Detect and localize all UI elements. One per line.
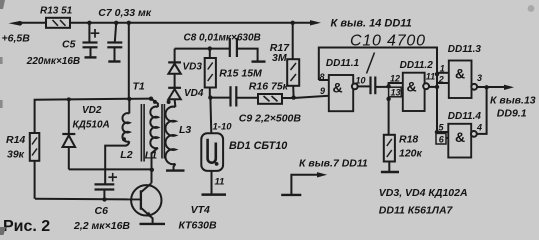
svg-text:13: 13 [391, 88, 401, 98]
svg-text:ВD1 СБТ10: ВD1 СБТ10 [229, 140, 287, 152]
transistor VT4 [131, 183, 161, 223]
svg-text:R18: R18 [399, 134, 418, 146]
wire tube anode [209, 98, 212, 134]
svg-text:DD11.1: DD11.1 [326, 58, 360, 69]
transformer T1 core [140, 104, 142, 162]
wire VD2 anode to collector node [69, 168, 152, 170]
capacitor C10 [369, 77, 371, 95]
ground under BD1 [202, 193, 227, 196]
ground under VT4 emitter [140, 223, 166, 225]
node arrow left +6,5В [9, 21, 21, 26]
svg-text:+6,5В: +6,5В [2, 33, 31, 45]
node junction L1 bottom / collector [150, 168, 154, 172]
svg-text:К выв.13: К выв.13 [490, 95, 536, 107]
node junction R17 bottom [291, 95, 295, 99]
svg-text:39к: 39к [7, 149, 25, 161]
ground under C8 [252, 60, 266, 62]
ground under L3 [166, 169, 185, 171]
svg-text:8: 8 [320, 72, 325, 82]
svg-text:R14: R14 [6, 134, 25, 146]
svg-text:10: 10 [356, 76, 366, 86]
svg-text:2,2 мк×16В: 2,2 мк×16В [73, 220, 130, 232]
node junction C10 / pin12 [386, 84, 390, 88]
wire +6.5V branch left [35, 99, 151, 134]
svg-text:С7 0,33 мк: С7 0,33 мк [98, 7, 151, 19]
svg-text:2: 2 [438, 75, 444, 85]
diode VD4 [168, 74, 181, 99]
svg-text:VТ4: VТ4 [191, 204, 210, 216]
svg-text:DD11.4: DD11.4 [448, 111, 482, 122]
wire +6.5V top rail [17, 22, 311, 24]
resistor R15 [205, 49, 216, 98]
node arrow to DD9.1 [504, 85, 514, 90]
svg-text:DD11.3: DD11.3 [448, 44, 482, 55]
svg-text:L1: L1 [145, 150, 157, 162]
svg-text:1-10: 1-10 [213, 122, 233, 133]
wire ground arrow pin7 [281, 194, 301, 196]
svg-text:&: & [455, 129, 465, 145]
gate DD11.2 [403, 73, 437, 111]
svg-text:VD2: VD2 [82, 105, 102, 116]
svg-text:R15 15М: R15 15М [219, 68, 262, 80]
svg-text:КТ630В: КТ630В [179, 220, 218, 232]
svg-text:С10 4700: С10 4700 [350, 33, 426, 50]
node C10 to gate inputs [376, 86, 389, 88]
node junction VD2 cathode [67, 97, 71, 101]
node junction L2 top / +6.5V [127, 97, 131, 101]
ground under R18 [381, 171, 399, 173]
node arrow right to pin 14 [310, 20, 321, 25]
svg-text:3М: 3М [272, 52, 287, 64]
gate DD11.3 [437, 61, 504, 99]
wire HV node [175, 48, 230, 50]
wire drop from rail to transformer [128, 23, 130, 99]
svg-text:220мк×16В: 220мк×16В [26, 56, 80, 67]
gate DD11.4 [435, 87, 487, 157]
capacitor C6 [95, 173, 118, 200]
svg-text:С8 0,01мк×630В: С8 0,01мк×630В [184, 33, 261, 44]
svg-text:&: & [407, 79, 417, 95]
svg-text:К выв.7 DD11: К выв.7 DD11 [299, 158, 368, 170]
svg-text:VD3: VD3 [183, 62, 203, 73]
inductor L2 [105, 99, 129, 184]
svg-text:4: 4 [476, 123, 482, 133]
node junction C6 / base [102, 197, 106, 201]
svg-text:Т1: Т1 [133, 81, 145, 93]
svg-text:VD4: VD4 [184, 88, 204, 99]
inductor L3 [165, 99, 175, 170]
node junction outputs 3,4 [484, 85, 488, 89]
wire leader line C10 label [367, 53, 375, 74]
wire base [35, 198, 141, 201]
svg-text:12: 12 [390, 74, 400, 84]
node junction DD11.2 output [435, 85, 439, 89]
wire feedback loop [319, 48, 437, 133]
svg-text:С5: С5 [62, 39, 76, 51]
svg-text:9: 9 [320, 86, 325, 96]
node junction R15 / BD1 / C9 [208, 95, 212, 99]
svg-text:С6: С6 [95, 205, 109, 217]
svg-text:L3: L3 [179, 124, 191, 136]
svg-text:1: 1 [440, 64, 445, 74]
geiger tube BD1 [201, 133, 223, 194]
resistor R13 [46, 18, 70, 28]
svg-text:К выв. 14 DD11: К выв. 14 DD11 [331, 18, 412, 30]
svg-text:Рис. 2: Рис. 2 [3, 218, 50, 235]
inductor L1 [149, 97, 158, 184]
resistor R17 [287, 23, 299, 98]
svg-text:&: & [333, 80, 343, 96]
diode VD2 [62, 99, 75, 169]
node junction dots top rail [87, 21, 91, 25]
gate DD11.1 [319, 75, 370, 111]
capacitor C8 [229, 38, 231, 57]
svg-text:L2: L2 [120, 149, 132, 161]
svg-text:DD11.2: DD11.2 [400, 60, 434, 71]
resistor R14 [30, 133, 40, 161]
svg-text:&: & [455, 66, 465, 82]
svg-text:С9 2,2×500В: С9 2,2×500В [239, 113, 302, 125]
svg-text:DD9.1: DD9.1 [497, 108, 527, 120]
resistor R16 [236, 94, 328, 104]
capacitor C5 [83, 23, 100, 58]
svg-text:120к: 120к [399, 148, 423, 160]
node junction R18 top [386, 97, 390, 101]
node junction feedback / pin1 [435, 72, 439, 76]
svg-text:11: 11 [426, 72, 435, 82]
svg-text:КД510А: КД510А [73, 120, 110, 131]
resistor R18 [384, 135, 395, 171]
svg-text:VD3, VD4 КД102А: VD3, VD4 КД102А [379, 187, 468, 199]
diode VD3 [168, 49, 181, 74]
svg-text:DD11 К561ЛА7: DD11 К561ЛА7 [379, 205, 454, 217]
svg-text:R13 51: R13 51 [40, 5, 73, 16]
capacitor C7 [107, 23, 122, 62]
svg-text:3: 3 [477, 73, 482, 83]
svg-text:R16 75к: R16 75к [249, 81, 289, 93]
capacitor C9 [210, 86, 236, 106]
svg-text:11: 11 [215, 177, 225, 188]
